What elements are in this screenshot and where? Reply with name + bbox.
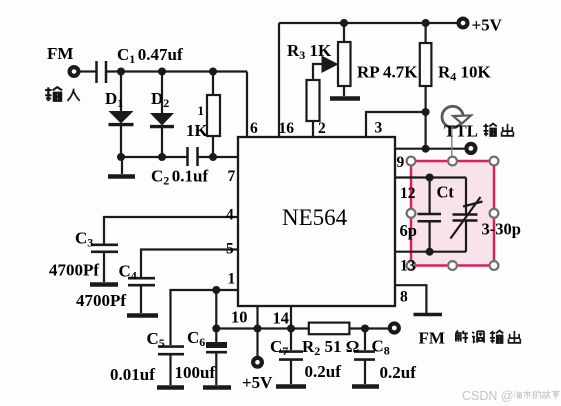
svg-text:NE564: NE564 xyxy=(282,205,348,230)
terminal +5V top xyxy=(459,19,468,28)
node pin12 junction xyxy=(426,174,434,182)
potentiometer RP top lead wire xyxy=(343,23,345,42)
capacitor C8 top lead wire xyxy=(364,329,366,351)
svg-text:FM: FM xyxy=(47,44,73,63)
svg-text:TTL: TTL xyxy=(444,122,478,141)
svg-text:6: 6 xyxy=(250,120,258,137)
potentiometer RP ground bar xyxy=(330,96,360,101)
wire pin 8 xyxy=(395,285,426,313)
resistor R3 top lead / wiper wire xyxy=(313,64,324,80)
svg-text:4700Pf: 4700Pf xyxy=(49,261,99,280)
trimmer Ct adjustment diagonal xyxy=(451,197,481,239)
svg-text:7: 7 xyxy=(228,168,236,185)
svg-text:CSDN @: CSDN @ xyxy=(462,389,514,403)
svg-text:5: 5 xyxy=(226,241,234,258)
svg-text:R4 10K: R4 10K xyxy=(438,63,492,84)
potentiometer RP bottom lead wire xyxy=(343,86,345,96)
svg-text:3-30p: 3-30p xyxy=(482,220,521,239)
svg-text:100uf: 100uf xyxy=(175,363,216,382)
wire pin 1 xyxy=(171,290,239,345)
trimmer Ct bottom lead wire xyxy=(465,222,467,252)
resistor R4 10K body xyxy=(420,43,432,86)
node pin1/bottom rail junction xyxy=(212,325,220,333)
capacitor C3 plates xyxy=(91,245,118,252)
svg-text:13: 13 xyxy=(400,258,416,275)
svg-text:3: 3 xyxy=(375,120,383,137)
resistor R3 1K body xyxy=(307,80,320,121)
wire pin 14 xyxy=(290,306,292,329)
svg-text:FM: FM xyxy=(419,329,445,348)
capacitor C6 electrolytic plate xyxy=(206,342,227,348)
wire pin 12 xyxy=(395,176,430,178)
node D1 bottom junction xyxy=(117,153,125,161)
trimmer Ct top lead wire xyxy=(465,178,467,214)
svg-text:10: 10 xyxy=(231,308,248,327)
capacitor C7 plates xyxy=(279,352,303,360)
node C1/D1 junction xyxy=(117,68,125,76)
capacitor C7 lower lead wire xyxy=(290,361,292,385)
wire pin 7 right segment xyxy=(198,156,238,158)
capacitor 6p bottom lead wire xyxy=(429,222,431,252)
ground bar C3 xyxy=(90,282,118,287)
svg-text:C20.1uf: C20.1uf xyxy=(151,167,208,188)
resistor R2 51 ohm body xyxy=(309,323,350,335)
potentiometer RP 4.7K body xyxy=(338,42,351,86)
node R4/TTL junction xyxy=(422,145,430,153)
node R4/pin3 junction xyxy=(422,108,430,116)
svg-text:12: 12 xyxy=(400,185,416,202)
svg-text:16: 16 xyxy=(279,120,295,137)
svg-text:1: 1 xyxy=(228,271,236,288)
selection handles xyxy=(407,157,499,270)
capacitor C4 lower lead wire xyxy=(140,286,142,313)
svg-text:4: 4 xyxy=(226,207,234,224)
svg-text:0.01uf: 0.01uf xyxy=(110,365,155,384)
capacitor C6 top lead wire xyxy=(215,329,217,343)
resistor R4 bottom lead wire xyxy=(425,86,427,149)
resistor R3 bottom lead wire to pin 2 xyxy=(312,121,314,136)
selection highlight box (pink) xyxy=(411,161,494,266)
rotate handle stem xyxy=(451,128,453,156)
wire capacitor loop top xyxy=(430,176,466,178)
svg-text:Ct: Ct xyxy=(437,183,455,202)
diode D2 anode wire xyxy=(161,72,163,114)
wire pin 4 xyxy=(104,217,238,244)
node pin13 junction xyxy=(426,248,434,256)
svg-text:RP 4.7K: RP 4.7K xyxy=(357,63,418,82)
diode D2 triangle xyxy=(150,113,174,126)
node 1K top junction xyxy=(209,68,217,76)
svg-text:R3 1K: R3 1K xyxy=(287,41,332,62)
terminal FM demod output xyxy=(390,324,399,333)
capacitor C1 0.47uf plates xyxy=(97,61,107,83)
node pin14/C7 junction xyxy=(287,325,295,333)
wire C1 to pin6 corner xyxy=(107,70,247,72)
ground lead under D1 xyxy=(121,157,123,174)
resistor 1K bottom lead wire xyxy=(212,136,214,157)
bottom rail wire right of R2 xyxy=(349,327,388,329)
diode D1 triangle xyxy=(109,111,134,124)
wire pin 9 to TTL output terminal xyxy=(395,148,465,150)
capacitor C5 lower lead wire xyxy=(169,355,171,385)
wire pin16 drop from +5V rail xyxy=(278,23,280,136)
capacitor C3 lower lead wire xyxy=(103,253,105,282)
capacitor C5 plates xyxy=(158,347,184,355)
diode D2 cathode bar xyxy=(150,125,174,128)
trimmer Ct plates xyxy=(453,215,478,221)
wire pin 10 xyxy=(256,306,258,329)
svg-text:1: 1 xyxy=(198,103,205,118)
diode D2 lower wire xyxy=(161,126,163,157)
capacitor 6p top lead wire xyxy=(429,178,431,214)
diode D1 cathode bar xyxy=(109,123,134,126)
svg-text:0.2uf: 0.2uf xyxy=(305,362,342,381)
node R4 top junction xyxy=(422,19,430,27)
svg-text:+5V: +5V xyxy=(472,16,503,35)
svg-text:14: 14 xyxy=(273,309,290,328)
terminal +5V bottom xyxy=(253,358,262,367)
+5V supply rail wire (top) xyxy=(279,22,457,24)
svg-text:8: 8 xyxy=(400,289,408,306)
wire pin1 drop to bottom rail xyxy=(215,290,217,329)
svg-text:9: 9 xyxy=(397,154,405,171)
capacitor C6 lower lead wire xyxy=(215,353,217,385)
wire pin 5 xyxy=(141,250,238,278)
svg-text:6p: 6p xyxy=(400,221,417,240)
wire pin 3 xyxy=(366,112,426,136)
bottom rail wire left of R2 xyxy=(216,327,308,329)
capacitor 6p plates xyxy=(418,214,442,221)
svg-text:1K: 1K xyxy=(186,121,209,140)
wire +5V bottom terminal lead xyxy=(256,329,258,357)
ground bar C8 xyxy=(352,384,379,389)
label 输入 xyxy=(45,87,79,101)
ground bar pin 8 xyxy=(414,313,443,316)
svg-text:R2 51 Ω: R2 51 Ω xyxy=(302,337,359,358)
diode D1 lower wire xyxy=(120,124,122,157)
resistor 1K top lead wire xyxy=(212,72,214,96)
svg-text:C10.47uf: C10.47uf xyxy=(117,45,183,66)
terminal FM input xyxy=(70,67,79,76)
ground bar C5 xyxy=(157,385,184,390)
ground bar C4 xyxy=(127,313,158,318)
wire pin 13 xyxy=(395,251,430,253)
node pin1 junction xyxy=(212,286,220,294)
ground bar C6 xyxy=(203,385,231,390)
svg-text:4700Pf: 4700Pf xyxy=(76,291,126,310)
terminal TTL output xyxy=(466,144,475,153)
node RP top junction xyxy=(340,19,348,27)
capacitor C2 0.1uf plates xyxy=(188,147,198,166)
wire capacitor loop bottom xyxy=(430,251,466,253)
node C8 junction xyxy=(361,325,369,333)
capacitor C8 lower lead wire xyxy=(364,361,366,385)
capacitor C6 thin plate xyxy=(206,351,227,354)
capacitor C4 plates xyxy=(128,278,155,285)
wire pin 7 left segment xyxy=(121,156,187,158)
resistor 1K body xyxy=(207,95,220,136)
node 1K bottom junction xyxy=(209,153,217,161)
capacitor C8 plates xyxy=(354,352,375,360)
node D2 top junction xyxy=(158,68,166,76)
wire pin 6 drop xyxy=(246,72,248,137)
resistor R4 top lead wire xyxy=(425,23,427,43)
trimmer Ct adjustment end bar xyxy=(463,202,483,207)
ground bar xyxy=(108,174,135,179)
node pin10 junction xyxy=(254,325,262,333)
capacitor C7 top lead wire xyxy=(290,329,292,351)
IC NE564 body xyxy=(238,137,395,306)
ground bar C7 xyxy=(276,384,306,389)
potentiometer RP wiper arrow xyxy=(322,56,339,74)
rotate handle icon xyxy=(442,106,463,127)
svg-text:+5V: +5V xyxy=(242,373,273,392)
node D2 bottom junction xyxy=(158,153,166,161)
wire FM input to C1 xyxy=(80,70,96,72)
diode D1 anode wire xyxy=(120,72,122,112)
svg-text:2: 2 xyxy=(318,120,326,137)
svg-text:0.2uf: 0.2uf xyxy=(380,363,417,382)
